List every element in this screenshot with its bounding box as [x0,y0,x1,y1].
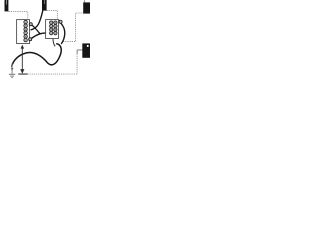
switch S2 (middle box) [46,20,59,39]
wire: right pickup dashed lead [63,13,84,42]
thick wire: hook from S2 right lug [61,23,65,44]
jack J1 (output, black block) [82,43,90,57]
thick wire: upper-lug branch crossing [31,24,40,33]
wire: middle pickup dashed lead [47,11,58,20]
wire: jack lead [77,50,82,54]
arrow down head [20,69,24,74]
pickup P3 (bridge, top-right) [84,0,86,3]
thick wire: middle pickup to left switch lug [31,11,43,30]
ground symbol [9,64,15,78]
thick wire: long ground swoop [12,44,62,67]
wire: ground bus dashed [18,73,27,75]
switch S1 (left box) [17,20,30,44]
thick wire: left switch lug to middle switch [30,33,57,40]
thick wire: S2 right hook [59,20,60,21]
S1 right-side lug B [29,38,32,41]
S1 lug column [24,20,27,41]
wire: S2 bottom stem [53,39,55,47]
pickup P1 (neck, top-left) [5,0,9,11]
S2 lug grid [50,21,57,35]
arrow: S1 to ground bus (up head) [21,48,23,71]
background [0,0,90,85]
wire: left pickup dashed lead [9,12,28,20]
S1 right-side lug A [29,23,32,26]
pickup P2 (middle, top-center) [42,0,47,11]
